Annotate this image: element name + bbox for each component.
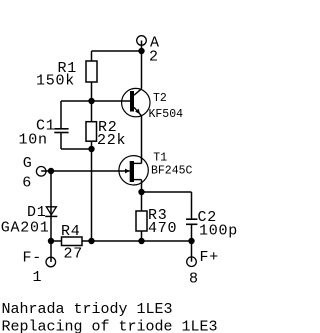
resistor R4 <box>61 223 83 263</box>
wire R2 node down to bottom rail <box>91 149 93 241</box>
svg-text:D1: D1 <box>27 204 47 221</box>
terminal F- <box>23 249 56 286</box>
svg-text:R4: R4 <box>61 223 81 240</box>
svg-text:150k: 150k <box>36 73 75 90</box>
node junction R3 bottom <box>138 238 144 244</box>
transistor T1 <box>119 152 193 185</box>
wire T2 emitter to T1 drain vertical <box>141 116 143 164</box>
transistor T2 <box>122 88 184 121</box>
svg-text:10n: 10n <box>19 131 48 148</box>
wire T1 source vertical <box>141 180 143 192</box>
node junction diode bottom <box>48 238 54 244</box>
capacitor C2 <box>186 209 238 239</box>
wire G node down to diode <box>50 171 52 241</box>
svg-text:T2: T2 <box>153 92 167 105</box>
svg-text:2: 2 <box>149 49 159 66</box>
svg-text:Nahrada triody 1LE3: Nahrada triody 1LE3 <box>2 301 173 318</box>
wire bottom rail <box>51 240 192 242</box>
svg-text:470: 470 <box>148 220 177 237</box>
terminal F+ <box>187 249 219 288</box>
wire C1 top vertical <box>60 101 62 128</box>
wire R1 branch vertical <box>91 51 93 101</box>
wire T2 collector vertical <box>141 51 143 89</box>
svg-text:F-: F- <box>23 249 43 266</box>
svg-text:G: G <box>23 155 33 172</box>
node junction G <box>48 168 54 174</box>
svg-text:KF504: KF504 <box>149 108 184 121</box>
svg-text:8: 8 <box>189 270 199 287</box>
wire C2 bottom vertical <box>191 225 193 241</box>
wire R3 vertical <box>141 192 143 241</box>
terminal G <box>22 155 46 192</box>
node junction C2 bottom <box>188 238 194 244</box>
wire to F- terminal <box>50 241 52 262</box>
wire top horizontal <box>92 50 142 52</box>
node junction below A <box>138 48 144 54</box>
node junction R2 bottom <box>88 146 94 152</box>
wire R2 vertical <box>91 101 93 149</box>
svg-text:6: 6 <box>22 175 32 192</box>
svg-text:1: 1 <box>33 269 43 286</box>
svg-text:T1: T1 <box>153 152 167 165</box>
wire gate horizontal from G <box>41 170 130 172</box>
svg-text:GA201: GA201 <box>1 219 50 236</box>
resistor R3 <box>136 207 177 237</box>
wire C2 top vertical <box>191 192 193 219</box>
node junction R1 bottom <box>88 98 94 104</box>
resistor R1 <box>36 60 97 90</box>
wire to F+ terminal <box>191 241 193 262</box>
wire base node horizontal to T2 <box>92 100 131 102</box>
wire C1 to R2 bottom horizontal <box>61 148 92 150</box>
wire source node to C2 horizontal <box>142 191 192 193</box>
wire A stub <box>141 41 143 52</box>
svg-text:Replacing of triode 1LE3: Replacing of triode 1LE3 <box>2 319 218 333</box>
svg-text:22k: 22k <box>97 132 126 149</box>
node junction R4 right <box>88 238 94 244</box>
svg-text:100p: 100p <box>199 222 238 239</box>
wire node to C1 horizontal <box>61 100 92 102</box>
wire C1 bottom vertical <box>60 133 62 149</box>
svg-text:27: 27 <box>64 246 84 263</box>
resistor R2 <box>86 119 126 149</box>
node junction T1 source <box>138 189 144 195</box>
terminal A <box>137 34 160 65</box>
diode D1 <box>1 204 58 237</box>
capacitor C1 <box>19 117 69 148</box>
svg-text:F+: F+ <box>200 249 220 266</box>
svg-text:BF245C: BF245C <box>151 165 193 178</box>
